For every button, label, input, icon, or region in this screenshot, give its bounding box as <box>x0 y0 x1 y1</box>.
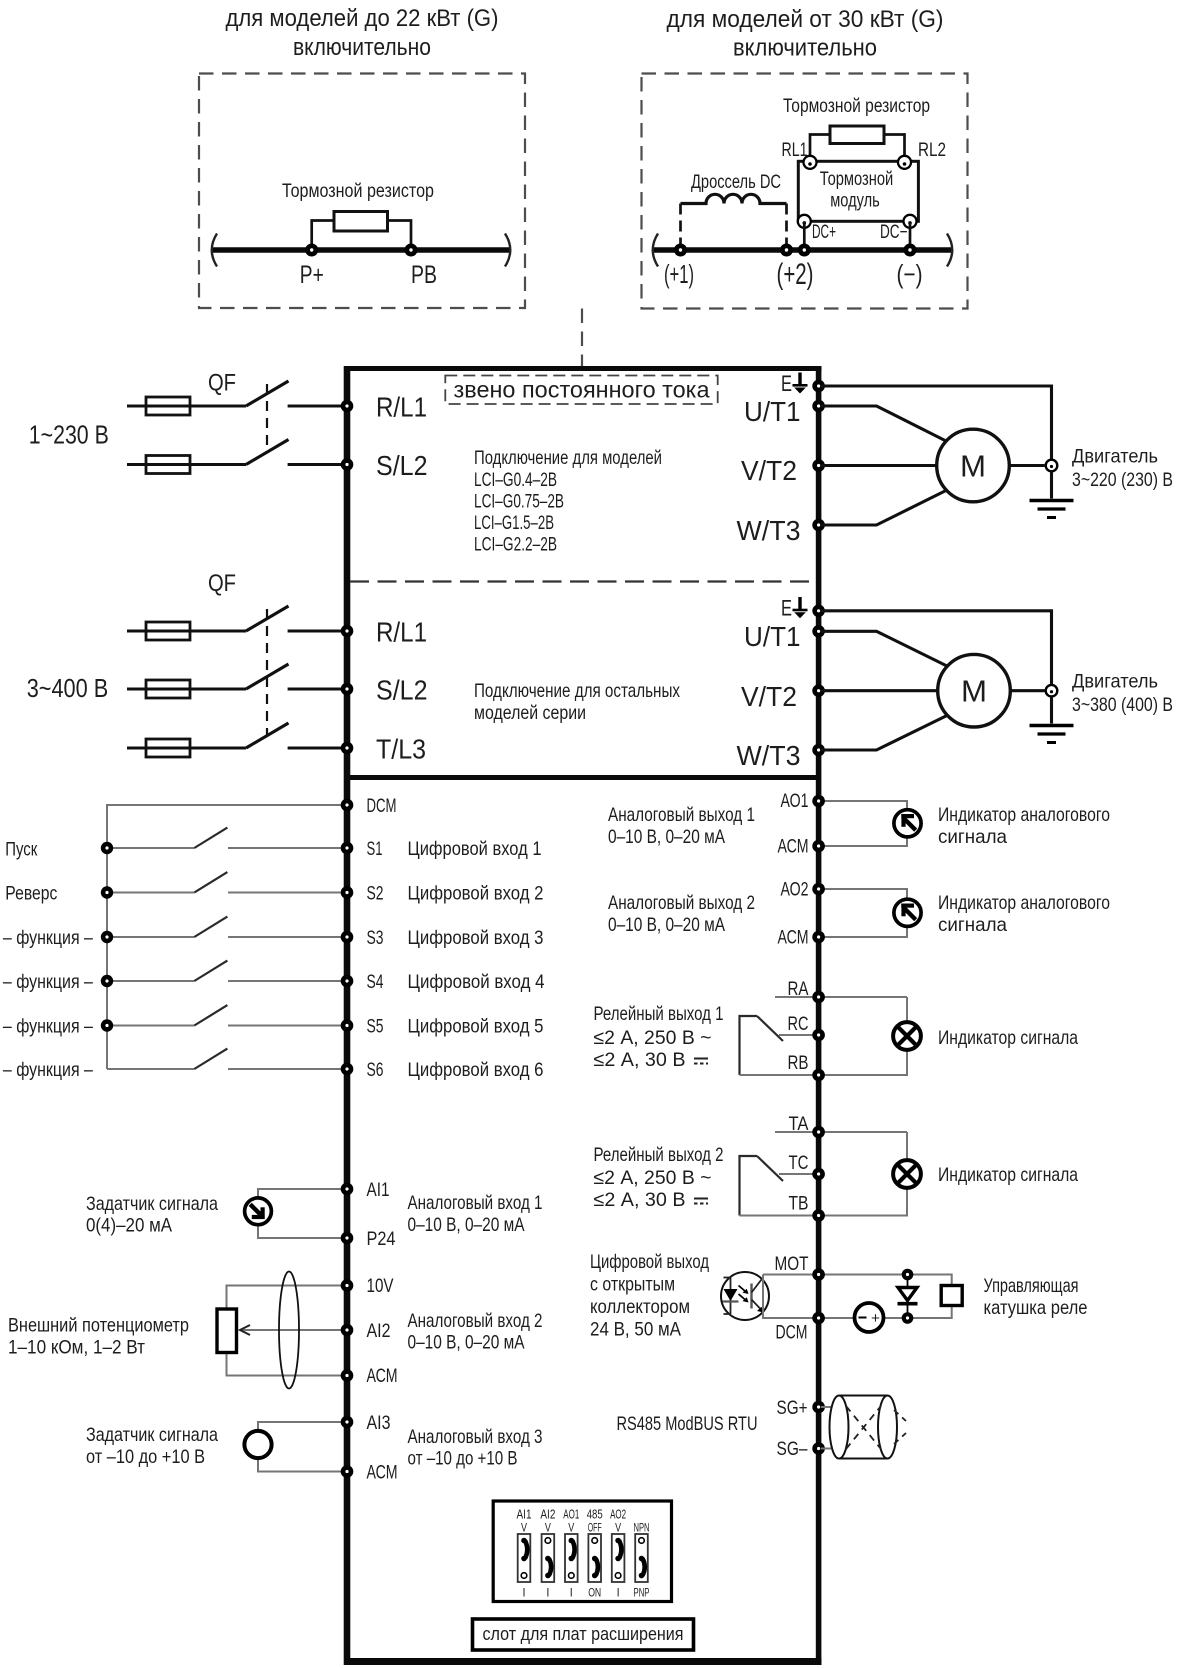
svg-text:модуль: модуль <box>830 191 880 212</box>
svg-text:S6: S6 <box>367 1059 384 1081</box>
label: motor 2 <box>1072 671 1173 717</box>
label: indicator analog 2 <box>938 892 1110 936</box>
twisted pair cable symbol <box>830 1396 907 1459</box>
svg-text:– функция –: – функция – <box>3 1059 93 1081</box>
wire U/T1 to motor M2 <box>821 631 949 667</box>
node (+1) <box>674 244 687 257</box>
indicator: analog signal meter 1 <box>894 810 921 837</box>
svg-text:V: V <box>545 1523 551 1535</box>
terminal dot RC <box>812 1029 825 1042</box>
wire MOT row <box>763 1275 952 1287</box>
svg-text:Управляющая: Управляющая <box>984 1275 1079 1297</box>
svg-text:LCI–G0.75–2В: LCI–G0.75–2В <box>474 491 564 513</box>
switch S2 (Реверс) <box>107 872 344 892</box>
relay contact 2 <box>740 1156 822 1216</box>
fuse FU1 (R) <box>146 397 190 415</box>
wire resistor right leg to PB <box>388 221 412 251</box>
svg-text:≤2 А, 30 В: ≤2 А, 30 В <box>594 1189 686 1211</box>
svg-text:1–10 кОм, 1–2 Вт: 1–10 кОм, 1–2 Вт <box>8 1337 145 1359</box>
svg-text:ON: ON <box>588 1588 601 1600</box>
dashed frame: DC link label <box>445 376 717 405</box>
terminal dot TB <box>812 1209 825 1222</box>
svg-text:AI2: AI2 <box>367 1320 391 1342</box>
svg-text:Индикатор сигнала: Индикатор сигнала <box>938 1027 1078 1049</box>
terminal dot AI1 <box>341 1183 354 1196</box>
divider between power and control sections <box>344 775 821 780</box>
fuse FU5 (T) <box>146 739 190 757</box>
svg-text:10V: 10V <box>367 1275 394 1297</box>
node (+2) choke side <box>780 244 793 257</box>
breaker QF1 pole R blade <box>246 381 289 406</box>
svg-text:AO2: AO2 <box>610 1507 626 1522</box>
svg-text:0(4)–20 мА: 0(4)–20 мА <box>86 1215 172 1237</box>
terminal ring motor M2 <box>1046 685 1058 697</box>
label: analog input 2 <box>408 1310 543 1354</box>
svg-text:RL1: RL1 <box>782 139 808 161</box>
terminal dot ACM (AO2) <box>812 931 825 944</box>
svg-text:0–10 В, 0–20 мА: 0–10 В, 0–20 мА <box>408 1332 525 1354</box>
svg-text:I: I <box>617 1588 620 1600</box>
bus break mark left 2 <box>653 234 658 267</box>
label: braking module <box>820 169 894 212</box>
label: external potentiometer <box>8 1315 189 1359</box>
svg-text:S4: S4 <box>367 971 384 993</box>
terminal dot RA <box>812 991 825 1004</box>
wire E1 to ground <box>821 386 1052 460</box>
terminal dot S4 <box>341 975 354 988</box>
wire AO1 loop <box>821 801 907 846</box>
svg-text:M: M <box>961 674 987 709</box>
svg-text:Индикатор сигнала: Индикатор сигнала <box>938 1164 1078 1186</box>
ground symbol E1 <box>781 371 808 396</box>
node (+2) module side <box>798 244 811 257</box>
ground symbol motor 2 <box>1030 726 1074 743</box>
wire V/T2 to motor M1 <box>821 464 937 467</box>
svg-text:Индикатор аналогового: Индикатор аналогового <box>938 804 1110 826</box>
svg-text:V: V <box>615 1523 621 1535</box>
motor M2 <box>938 654 1011 727</box>
svg-text:Внешний потенциометр: Внешний потенциометр <box>8 1315 189 1337</box>
DIP switch 3 (AO1, V) <box>565 1534 578 1582</box>
svg-text:Тормозной резистор: Тормозной резистор <box>783 96 930 117</box>
svg-text:Аналоговый вход 3: Аналоговый вход 3 <box>408 1426 543 1448</box>
terminal dot MOT <box>812 1268 825 1281</box>
svg-text:Аналоговый вход 1: Аналоговый вход 1 <box>408 1192 543 1214</box>
svg-text:DC−: DC− <box>880 222 908 243</box>
svg-text:АСМ: АСМ <box>778 836 809 858</box>
node PB <box>405 244 418 257</box>
motor M1 <box>937 429 1010 502</box>
wire phase T input 400V <box>127 746 246 749</box>
svg-text:SG–: SG– <box>777 1438 808 1460</box>
svg-text:коллектором: коллектором <box>590 1296 690 1318</box>
svg-text:– функция –: – функция – <box>3 971 93 993</box>
DIP top position labels <box>521 1523 650 1535</box>
DC symbol relay 2 <box>694 1199 708 1204</box>
svg-text:QF: QF <box>208 370 236 397</box>
fuse FU2 (S) <box>146 456 190 474</box>
DIP switch 5 (AO2, V) <box>612 1534 625 1582</box>
wire phase R input <box>127 404 246 407</box>
DIP switch 4 (485, ON) <box>588 1534 601 1582</box>
wire AI1 loop <box>258 1189 344 1238</box>
svg-text:1~230 В: 1~230 В <box>29 420 109 450</box>
terminal dot SG- <box>812 1442 825 1455</box>
label: analog output 2 <box>608 892 755 936</box>
switch S1 (Пуск) <box>107 828 344 848</box>
terminal dot AO1 <box>812 795 825 808</box>
svg-text:V: V <box>568 1523 574 1535</box>
breaker QF2 pole T blade <box>246 723 289 748</box>
wire S to terminal S/L2 <box>288 463 344 466</box>
wire R to terminal R/L1 <box>288 404 344 407</box>
terminal dot S2 <box>341 886 354 899</box>
svg-text:TB: TB <box>789 1193 809 1215</box>
terminal dot E (230V) <box>812 380 825 393</box>
svg-text:R/L1: R/L1 <box>376 392 427 423</box>
svg-text:U/T1: U/T1 <box>744 621 801 652</box>
inverter block right edge <box>816 366 822 1665</box>
svg-text:DC+: DC+ <box>812 222 836 243</box>
indicator lamp relay 2 <box>893 1160 921 1188</box>
svg-text:3~400 В: 3~400 В <box>27 673 109 703</box>
title: right option box heading <box>667 6 944 62</box>
node S4 input <box>101 975 113 987</box>
svg-text:I: I <box>546 1588 549 1600</box>
svg-text:T/L3: T/L3 <box>376 734 426 765</box>
wire DC- leg <box>909 221 912 250</box>
wire phase S input <box>127 463 246 466</box>
svg-text:E: E <box>781 371 792 396</box>
terminal dot DCM (output) <box>812 1312 825 1325</box>
label: analog input 3 <box>408 1426 543 1470</box>
fuse FU4 (S) <box>146 680 190 698</box>
svg-text:M: M <box>960 449 986 484</box>
svg-text:с открытым: с открытым <box>590 1274 675 1296</box>
svg-text:E: E <box>781 596 792 621</box>
terminal dot E (400V) <box>812 605 825 618</box>
svg-text:– функция –: – функция – <box>3 1016 93 1038</box>
wire ACM loop (AI3) <box>258 1458 344 1472</box>
svg-text:W/T3: W/T3 <box>737 515 801 546</box>
inverter block bottom edge <box>344 1658 822 1665</box>
wire RA <box>775 996 907 998</box>
svg-text:S5: S5 <box>367 1016 384 1038</box>
svg-text:от –10 до +10 В: от –10 до +10 В <box>86 1446 205 1468</box>
terminal dot S6 <box>341 1063 354 1076</box>
wire ring to ground 1 <box>1050 472 1053 499</box>
note: other models <box>474 680 680 724</box>
svg-text:(+2): (+2) <box>777 258 814 291</box>
terminal dot W/T3 (230V) <box>812 519 825 532</box>
switch S5 (функция) <box>107 1005 344 1025</box>
svg-text:включительно: включительно <box>293 34 431 61</box>
terminal RL1 <box>804 156 817 169</box>
svg-text:(−): (−) <box>897 259 923 289</box>
ground symbol motor 1 <box>1030 501 1074 518</box>
svg-text:моделей серии: моделей серии <box>474 702 586 724</box>
label: motor 1 <box>1072 446 1173 492</box>
breaker QF1 pole S blade <box>246 440 289 465</box>
resistor (braking, box 2) <box>830 126 884 144</box>
svg-text:V: V <box>521 1523 527 1535</box>
terminal dot S/L2 (230V) <box>341 458 354 471</box>
svg-text:Релейный выход 1: Релейный выход 1 <box>594 1003 724 1025</box>
breaker QF2 linkage (dashed) <box>266 609 268 736</box>
wire ring to ground 2 <box>1050 697 1053 724</box>
svg-text:AI1: AI1 <box>367 1179 390 1201</box>
switch S3 (функция) <box>107 917 344 937</box>
svg-text:0–10 В, 0–20 мА: 0–10 В, 0–20 мА <box>408 1214 525 1236</box>
bus break mark right <box>505 234 510 267</box>
node S3 input <box>101 931 113 943</box>
svg-text:Индикатор аналогового: Индикатор аналогового <box>938 892 1110 914</box>
braking module box <box>798 161 918 221</box>
svg-text:I: I <box>570 1588 573 1600</box>
dashed option box 1 <box>199 74 525 309</box>
label: relay output 1 <box>594 1003 724 1071</box>
svg-text:RC: RC <box>788 1013 809 1035</box>
svg-text:S2: S2 <box>367 883 384 905</box>
svg-text:S3: S3 <box>367 927 384 949</box>
svg-text:W/T3: W/T3 <box>737 740 801 771</box>
svg-text:V/T2: V/T2 <box>741 455 797 486</box>
wire V/T2 to motor M2 <box>821 689 938 692</box>
svg-text:S1: S1 <box>367 838 383 860</box>
wire R to terminal R/L1 400V <box>288 629 344 632</box>
svg-text:AI2: AI2 <box>540 1507 555 1522</box>
title: left option box heading <box>226 5 499 61</box>
potentiometer body <box>217 1309 237 1353</box>
terminal dot AO2 <box>812 883 825 896</box>
svg-text:сигнала: сигнала <box>938 914 1007 936</box>
node S2 input <box>101 886 113 898</box>
terminal dot ACM (AI3) <box>341 1465 354 1478</box>
svg-text:Цифровой вход 3: Цифровой вход 3 <box>408 927 544 949</box>
svg-text:Цифровой вход 5: Цифровой вход 5 <box>408 1016 544 1038</box>
wire AI2 to pot wiper <box>240 1329 344 1331</box>
cable shield ellipse <box>279 1272 299 1389</box>
wire relay1 lamp loop <box>740 997 908 1075</box>
svg-text:LCI–G0.4–2В: LCI–G0.4–2В <box>474 469 557 491</box>
terminal dot S1 <box>341 842 354 855</box>
svg-text:TA: TA <box>789 1113 809 1135</box>
terminal dot R/L1 (400V) <box>341 625 354 638</box>
wire resistor2 right leg to RL2 <box>884 135 905 162</box>
svg-text:I: I <box>523 1588 526 1600</box>
svg-text:Дроссель DC: Дроссель DC <box>691 172 781 193</box>
terminal dot TC <box>812 1168 825 1181</box>
ground symbol E2 <box>781 596 808 621</box>
terminal dot V/T2 (230V) <box>812 459 825 472</box>
svg-text:Аналоговый выход 2: Аналоговый выход 2 <box>608 892 755 914</box>
svg-text:Пуск: Пуск <box>5 839 37 861</box>
svg-text:АО1: АО1 <box>781 790 809 812</box>
DIP switch 6 (PNP) <box>635 1534 648 1582</box>
svg-text:Задатчик сигнала: Задатчик сигнала <box>86 1424 218 1446</box>
dashed option box 2 <box>642 74 968 309</box>
bus break mark left <box>212 234 217 267</box>
terminal dot RB <box>812 1069 825 1082</box>
svg-text:Цифровой вход 1: Цифровой вход 1 <box>408 838 542 860</box>
label: analog output 1 <box>608 804 755 848</box>
DC symbol relay 1 <box>694 1059 708 1064</box>
label: signal setter 1 <box>86 1193 218 1237</box>
DIP switch 2 (AI2, I) <box>542 1534 555 1582</box>
svg-text:RS485 ModBUS RTU: RS485 ModBUS RTU <box>617 1413 758 1435</box>
svg-text:0–10 В, 0–20 мА: 0–10 В, 0–20 мА <box>608 826 725 848</box>
indicator lamp relay 1 <box>893 1022 921 1050</box>
label: signal setter 2 <box>86 1424 218 1468</box>
node S1 input <box>101 842 113 854</box>
svg-text:Тормозной резистор: Тормозной резистор <box>282 181 434 202</box>
expansion slot box <box>473 1619 694 1650</box>
wire relay2 lamp loop <box>740 1132 908 1216</box>
terminal dot AI2 <box>341 1324 354 1337</box>
inverter block top edge <box>344 366 822 371</box>
inverter block left edge <box>344 366 351 1665</box>
wire motor M1 output <box>1009 464 1044 467</box>
svg-text:+: + <box>871 1310 880 1327</box>
svg-text:P24: P24 <box>367 1228 396 1250</box>
wire resistor left leg to P+ <box>312 221 334 251</box>
wire choke left leg (dashed) <box>679 204 682 251</box>
svg-text:3~380 (400) В: 3~380 (400) В <box>1072 694 1173 716</box>
node P+ <box>305 244 318 257</box>
svg-text:АСМ: АСМ <box>367 1462 398 1484</box>
svg-text:Цифровой вход 6: Цифровой вход 6 <box>408 1059 544 1081</box>
wire TA <box>775 1131 907 1133</box>
terminal dot W/T3 (400V) <box>812 744 825 757</box>
wire resistor2 left leg to RL1 <box>810 135 830 162</box>
label: open collector output <box>590 1251 709 1341</box>
terminal dot U/T1 (230V) <box>812 400 825 413</box>
svg-text:3~220 (230) В: 3~220 (230) В <box>1072 469 1173 491</box>
svg-text:LCI–G2.2–2В: LCI–G2.2–2В <box>474 534 557 556</box>
wire choke right leg (dashed) <box>785 204 788 251</box>
DIP switch 1 (AI1, V) <box>518 1534 531 1582</box>
breaker QF2 pole R blade <box>246 606 289 631</box>
terminal DC- <box>904 215 917 228</box>
svg-text:Двигатель: Двигатель <box>1072 671 1158 693</box>
voltage source symbol <box>244 1431 271 1458</box>
svg-text:RB: RB <box>788 1052 809 1074</box>
note: models list 230V <box>474 447 662 556</box>
node (-) <box>904 244 917 257</box>
bus break mark right 2 <box>947 234 952 267</box>
inductor (DC choke) <box>681 194 787 203</box>
wire W/T3 to motor M1 <box>821 490 948 526</box>
terminal DC+ <box>798 215 811 228</box>
node S5 input <box>101 1019 113 1031</box>
wire motor M2 output <box>1010 689 1044 692</box>
svg-text:S/L2: S/L2 <box>376 675 428 706</box>
svg-text:AI1: AI1 <box>517 1507 532 1522</box>
terminal dot TA <box>812 1126 825 1139</box>
svg-text:АСМ: АСМ <box>778 927 809 949</box>
resistor (braking, box 1) <box>334 212 388 232</box>
svg-text:≤2 А, 250 В ~: ≤2 А, 250 В ~ <box>594 1027 712 1049</box>
svg-text:RA: RA <box>788 978 809 1000</box>
svg-text:Цифровой выход: Цифровой выход <box>590 1251 709 1273</box>
DIP bottom position labels <box>523 1588 650 1600</box>
breaker QF1 linkage (dashed) <box>266 384 268 452</box>
svg-text:Задатчик сигнала: Задатчик сигнала <box>86 1193 218 1215</box>
svg-text:Двигатель: Двигатель <box>1072 446 1158 468</box>
label: analog input 1 <box>408 1192 543 1236</box>
svg-text:для моделей от 30 кВт (G): для моделей от 30 кВт (G) <box>667 6 944 33</box>
svg-text:МОТ: МОТ <box>775 1253 809 1275</box>
svg-text:PNP: PNP <box>634 1588 650 1600</box>
terminal dot S3 <box>341 931 354 944</box>
svg-text:U/T1: U/T1 <box>744 396 801 427</box>
wire DCM common <box>107 805 344 1069</box>
wire S to terminal S/L2 400V <box>288 687 344 690</box>
svg-text:AO1: AO1 <box>563 1507 579 1522</box>
breaker QF2 pole S blade <box>246 664 289 689</box>
svg-text:PB: PB <box>411 261 437 289</box>
wire SG+ stub <box>821 1406 831 1408</box>
svg-text:≤2 А, 250 В ~: ≤2 А, 250 В ~ <box>594 1167 712 1189</box>
terminal dot S5 <box>341 1019 354 1032</box>
current source symbol <box>245 1198 272 1225</box>
svg-text:AI3: AI3 <box>367 1412 391 1434</box>
svg-text:АО2: АО2 <box>781 879 809 901</box>
label: indicator analog 1 <box>938 804 1110 848</box>
svg-text:SG+: SG+ <box>777 1397 808 1419</box>
svg-text:R/L1: R/L1 <box>376 617 427 648</box>
terminal dot ACM (AO1) <box>812 840 825 853</box>
wire W/T3 to motor M2 <box>821 715 949 751</box>
svg-text:катушка реле: катушка реле <box>984 1297 1088 1319</box>
optocoupler U1 <box>721 1272 769 1320</box>
svg-text:Цифровой вход 4: Цифровой вход 4 <box>408 971 545 993</box>
wire DC+ leg <box>803 221 806 250</box>
svg-text:TC: TC <box>789 1152 809 1174</box>
wire AI3 loop <box>258 1422 344 1431</box>
wire E2 to ground <box>821 611 1052 685</box>
svg-text:≤2 А, 30 В: ≤2 А, 30 В <box>594 1049 686 1071</box>
svg-text:звено постоянного тока: звено постоянного тока <box>454 377 710 403</box>
DIP header labels <box>517 1507 627 1522</box>
terminal dot U/T1 (400V) <box>812 625 825 638</box>
indicator: analog signal meter 2 <box>894 899 921 926</box>
svg-text:(+1): (+1) <box>664 259 694 289</box>
terminal dot P24 <box>341 1232 354 1245</box>
terminal dot ACM (AI2) <box>341 1369 354 1382</box>
wire U/T1 to motor M1 <box>821 406 948 442</box>
terminal dot V/T2 (400V) <box>812 684 825 697</box>
wire DCM row <box>763 1275 952 1319</box>
wire AO2 loop <box>821 889 907 937</box>
svg-text:АСМ: АСМ <box>367 1365 398 1387</box>
svg-text:NPN: NPN <box>634 1523 650 1535</box>
wire 10V to pot top <box>227 1286 345 1310</box>
potentiometer wiper arrow <box>240 1325 250 1335</box>
relay contact 1 <box>740 1016 822 1075</box>
svg-text:QF: QF <box>208 570 236 597</box>
DIP switch box <box>493 1501 671 1602</box>
terminal dot AI3 <box>341 1416 354 1429</box>
terminal dot 10V <box>341 1279 354 1292</box>
svg-text:V/T2: V/T2 <box>741 681 797 712</box>
fuse FU3 (R) <box>146 622 190 640</box>
DC bus (box 1) <box>213 247 509 253</box>
svg-text:RL2: RL2 <box>918 139 946 161</box>
svg-text:Тормозной: Тормозной <box>820 169 894 190</box>
svg-text:S/L2: S/L2 <box>376 450 428 481</box>
svg-text:слот для плат расширения: слот для плат расширения <box>483 1623 684 1644</box>
